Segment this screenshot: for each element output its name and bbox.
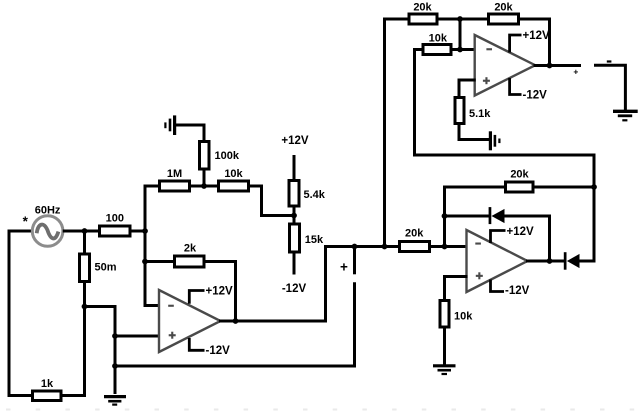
- svg-text:1k: 1k: [41, 378, 54, 390]
- wire U1 non-inverting input: [115, 335, 160, 338]
- node junction bottom rail: [112, 363, 118, 369]
- node junction D1 row: [442, 213, 448, 219]
- svg-text:100k: 100k: [215, 150, 240, 162]
- diode D2: [564, 252, 580, 270]
- node junction probe A tap: [352, 244, 358, 250]
- svg-text:+: +: [340, 260, 348, 275]
- svg-text:10k: 10k: [224, 168, 243, 180]
- svg-text:20k: 20k: [510, 168, 529, 180]
- resistor 20k top-right: [489, 2, 519, 24]
- wire 2k left lead: [145, 260, 175, 263]
- svg-text:20k: 20k: [494, 2, 513, 14]
- wire inverting column x=444.5: [443, 186, 446, 247]
- svg-text:+12V: +12V: [523, 30, 551, 42]
- svg-text:-12V: -12V: [505, 285, 530, 297]
- ground G4: [433, 366, 456, 374]
- node junction U2 inverting node: [457, 47, 463, 53]
- node junction U1 output / feedback: [233, 318, 239, 324]
- node junction 1M/10k/100k: [201, 183, 207, 189]
- wire U3 output: [526, 260, 565, 263]
- wire 1M left lead: [144, 185, 160, 188]
- wire left rail from source to 1k: [9, 231, 31, 396]
- wire U2 output: [534, 64, 582, 67]
- node junction U3 inverting node: [442, 244, 448, 250]
- node junction 2k row left: [142, 259, 148, 265]
- wire 2k right lead to U1 output: [204, 262, 236, 322]
- wire R100 to inverting node column: [130, 230, 147, 233]
- svg-text:-12V: -12V: [206, 345, 231, 357]
- wire 10k row left corner down to long rail: [415, 50, 595, 263]
- node junction U2 output: [547, 63, 553, 69]
- op-amp U2: [475, 35, 536, 96]
- svg-text:50m: 50m: [95, 261, 117, 273]
- op-amp U3: [467, 230, 528, 292]
- svg-text:+12V: +12V: [507, 226, 535, 238]
- node junction U1 + input: [112, 333, 118, 339]
- wire 1k to 50m column: [61, 394, 86, 397]
- probe B - mark: [607, 60, 612, 62]
- U1 -12V power pin: [189, 338, 230, 357]
- resistor 1M: [160, 168, 190, 191]
- wire top 20k row left lead: [385, 18, 410, 21]
- wire D1 row left: [445, 215, 491, 218]
- svg-text:1M: 1M: [167, 168, 182, 180]
- U3 +12V power pin: [491, 226, 535, 243]
- wire +12V to 5.4k: [293, 155, 296, 181]
- resistor 10k row B: [423, 32, 451, 54]
- wire column to top circuit: [383, 18, 386, 247]
- wire bottom rail to probe return: [115, 282, 355, 366]
- svg-text:-12V: -12V: [282, 283, 307, 295]
- ground G1: [104, 397, 126, 405]
- wire 15k bottom: [293, 252, 296, 275]
- node junction U3 output: [547, 258, 553, 264]
- resistor 15k: [290, 224, 325, 252]
- svg-text:20k: 20k: [405, 228, 424, 240]
- ground G3 sideways right: [490, 131, 499, 150]
- node junction 50m / ground branch: [82, 304, 88, 310]
- op-amp U1: [159, 290, 221, 352]
- resistor 20k input of U3: [400, 228, 430, 252]
- AC source V1 60Hz: [32, 216, 63, 247]
- resistor 5.4k: [289, 181, 326, 207]
- probe A + terminal wire: [353, 247, 356, 275]
- wire 50m top lead: [83, 231, 86, 254]
- U3 -12V power pin: [491, 280, 530, 298]
- wire 1M to 10k: [190, 185, 219, 188]
- wire branch to ground column: [85, 307, 116, 395]
- resistor 20k top-left: [409, 2, 437, 24]
- node junction at column x=145 y=231: [142, 228, 148, 234]
- wire U3 feedback 20k row left: [445, 186, 506, 189]
- wire top 20k right to U2 output column: [519, 19, 550, 66]
- U1 +12V power pin: [189, 286, 233, 304]
- wire U3 non-inverting input to 10k: [445, 277, 468, 301]
- svg-text:10k: 10k: [454, 310, 473, 322]
- U2 -12V power pin: [510, 78, 548, 102]
- wire 20k feedback right to rail column: [533, 186, 596, 189]
- wire U2 non-inverting input to 5.1k: [459, 80, 476, 98]
- svg-text:-12V: -12V: [523, 90, 548, 102]
- svg-text:2k: 2k: [184, 242, 197, 254]
- wire between top 20k resistors: [437, 18, 489, 21]
- wire 10k to U2 inverting input: [451, 48, 476, 51]
- svg-text:10k: 10k: [429, 32, 448, 44]
- U2 +12V power pin: [510, 30, 550, 52]
- wire vertical column x=145 from 1M row to op-amp U1 inverting input: [145, 186, 160, 306]
- wire D2 to rail column: [580, 260, 596, 263]
- resistor 1k: [33, 378, 62, 401]
- resistor 100k: [200, 142, 240, 170]
- node junction top feedback node: [457, 16, 463, 22]
- wire 10k to divider junction: [249, 186, 295, 216]
- node junction divider mid: [291, 213, 297, 219]
- svg-text:5.1k: 5.1k: [469, 108, 491, 120]
- ground G2 sideways left: [165, 115, 174, 135]
- svg-text:5.4k: 5.4k: [304, 189, 326, 201]
- wire feedback node down to 10k row: [459, 19, 462, 50]
- wire 20k to U3 inverting input: [430, 245, 468, 248]
- wire D1 to U3 output column: [505, 216, 550, 261]
- probe B right terminal to ground G5: [594, 65, 625, 111]
- wire 10k to ground G4: [443, 327, 446, 365]
- svg-text:+12V: +12V: [206, 286, 234, 298]
- node junction at source / 50m tap: [82, 228, 88, 234]
- diode D1: [489, 207, 505, 224]
- wire ground G2 to 100k top: [176, 125, 205, 142]
- resistor 10k row A: [219, 168, 249, 191]
- wire 5.1k to ground G3: [459, 124, 489, 140]
- svg-text:+: +: [573, 66, 578, 76]
- wire 5.4k to 15k: [293, 206, 296, 224]
- svg-text:*: *: [23, 214, 29, 229]
- node junction top-circuit column tap: [382, 244, 388, 250]
- resistor 10k row C: [440, 301, 473, 328]
- svg-text:20k: 20k: [413, 2, 432, 14]
- resistor 5.1k: [455, 98, 491, 124]
- svg-text:+12V: +12V: [281, 135, 309, 147]
- svg-text:60Hz: 60Hz: [35, 204, 61, 216]
- resistor 2k: [175, 242, 205, 267]
- wire 50m bottom lead down to 1k row: [83, 282, 86, 398]
- wire source left lead: [8, 230, 33, 233]
- resistor 50m: [80, 254, 117, 282]
- wire U1 output to 20k input row: [219, 247, 400, 322]
- ground G5: [613, 111, 638, 120]
- node junction rail / feedback: [591, 184, 597, 190]
- page edge grid dots: [6, 409, 634, 411]
- svg-text:100: 100: [106, 212, 124, 224]
- svg-text:15k: 15k: [305, 234, 324, 246]
- wire 100k bottom lead: [203, 169, 206, 188]
- resistor 20k feedback U3: [506, 168, 534, 192]
- resistor 100: [100, 212, 131, 236]
- wire source right to R 100: [63, 230, 99, 233]
